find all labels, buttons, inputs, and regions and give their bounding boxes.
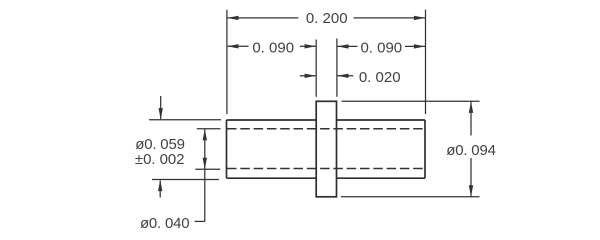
- dimension 0.200 line left segment: [228, 17, 299, 19]
- extension line left (x=227): [226, 10, 228, 114]
- diameter 0.094 dimension line upper segment: [470, 102, 472, 136]
- diameter 0.040 extension line upper: [197, 128, 221, 130]
- diameter 0.059 extension line bottom: [152, 179, 219, 181]
- dimension 0.090 right line segment b: [405, 45, 425, 47]
- dimension 0.200 arrowhead left: [227, 16, 238, 20]
- diameter 0.094 arrowhead up: [469, 102, 473, 113]
- dimension 0.200 arrowhead right: [414, 16, 425, 20]
- diameter 0.059 arrowhead down onto top line: [159, 108, 163, 119]
- dimension 0.090 right line segment a: [337, 45, 357, 47]
- svg-text:0. 090: 0. 090: [252, 40, 294, 57]
- pin body right end edge: [424, 120, 426, 178]
- dimension 0.020 arrowhead pointing left: [337, 74, 348, 78]
- diameter 0.094 extension line bottom: [341, 196, 480, 198]
- dimension 0.020 arrowhead pointing right: [305, 74, 316, 78]
- diameter 0.040 extension line lower: [195, 168, 220, 170]
- diameter 0.094 extension line top: [342, 100, 480, 102]
- dimension 0.090 right arrowhead left: [337, 44, 348, 48]
- diameter 0.040 arrowhead down: [203, 158, 207, 169]
- svg-text:0. 020: 0. 020: [359, 69, 401, 86]
- svg-text:ø0. 040: ø0. 040: [140, 215, 189, 232]
- dimension 0.090 left line segment b: [300, 45, 316, 47]
- dimension 0.090 right arrowhead right: [414, 44, 425, 48]
- diameter 0.040 leader horizontal segment: [195, 220, 205, 222]
- diameter 0.040 arrowhead up: [203, 129, 207, 140]
- extension line flange right (x=337): [336, 39, 338, 97]
- diameter 0.040 dimension and leader vertical line: [204, 129, 206, 221]
- pin body top edge right segment: [337, 119, 426, 121]
- svg-text:0. 090: 0. 090: [360, 40, 402, 57]
- flange rectangle: [316, 101, 336, 197]
- hidden bore dashed line lower: [227, 168, 425, 170]
- svg-text:±0. 002: ±0. 002: [135, 151, 185, 168]
- dimension 0.020 right leader line: [337, 75, 353, 77]
- diameter 0.059 extension line top: [149, 119, 221, 121]
- diameter 0.059 arrowhead up onto bottom line: [158, 180, 162, 191]
- pin body bottom edge right segment: [337, 177, 426, 179]
- dimension 0.090 left arrowhead left: [227, 44, 238, 48]
- dimension 0.090 left arrowhead right: [305, 44, 316, 48]
- pin body bottom edge left segment: [227, 177, 317, 179]
- diameter 0.094 arrowhead down: [469, 185, 473, 196]
- hidden bore dashed line upper: [227, 128, 425, 130]
- svg-text:ø0. 094: ø0. 094: [446, 142, 495, 159]
- pin body top edge left segment: [227, 119, 317, 121]
- dimension 0.020 left approach line: [300, 75, 316, 77]
- diameter 0.059 lower arrow tail: [159, 181, 161, 198]
- dimension 0.090 left line segment a: [228, 45, 249, 47]
- extension line right (x=425.5): [425, 10, 427, 114]
- diameter 0.094 dimension line lower segment: [470, 158, 472, 197]
- svg-text:0. 200: 0. 200: [306, 10, 348, 27]
- pin body left end edge: [226, 120, 228, 178]
- dimension 0.200 line right segment: [354, 17, 426, 19]
- extension line flange left (x=316): [315, 40, 317, 97]
- diameter 0.059 upper arrow tail: [160, 96, 162, 119]
